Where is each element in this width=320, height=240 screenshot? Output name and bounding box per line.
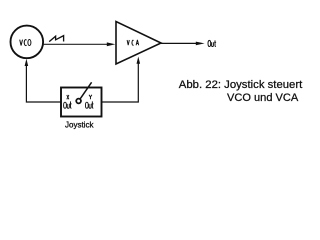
joystick lever (80, 82, 92, 100)
svg-text:Joystick: Joystick (65, 121, 94, 130)
pin label X (67, 95, 69, 99)
svg-text:VCO und VCA: VCO und VCA (227, 92, 299, 104)
label VCA (127, 40, 139, 45)
wire joystick X-out to VCO (26, 64, 61, 102)
joystick box J1 (61, 88, 102, 117)
arrowhead into VCO (25, 59, 29, 66)
pin label Y Out (85, 101, 93, 108)
pin label Y (89, 95, 92, 100)
VCO block U1 (11, 26, 44, 59)
joystick pivot ring (76, 99, 81, 104)
VCA block U2 (116, 22, 161, 65)
arrowhead into VCA bottom (137, 57, 141, 64)
arrowhead at Out (196, 42, 205, 46)
wire joystick Y-out to VCA (102, 62, 139, 102)
label VCO (20, 40, 31, 46)
arrowhead into VCA (107, 42, 116, 46)
wire VCA output (161, 42, 198, 44)
svg-text:Abb. 22: Joystick steuert: Abb. 22: Joystick steuert (179, 79, 303, 91)
pin label X Out (64, 101, 72, 108)
wire VCO output to VCA input (43, 43, 109, 45)
sawtooth waveform symbol (49, 36, 63, 42)
node Out label (208, 40, 216, 46)
